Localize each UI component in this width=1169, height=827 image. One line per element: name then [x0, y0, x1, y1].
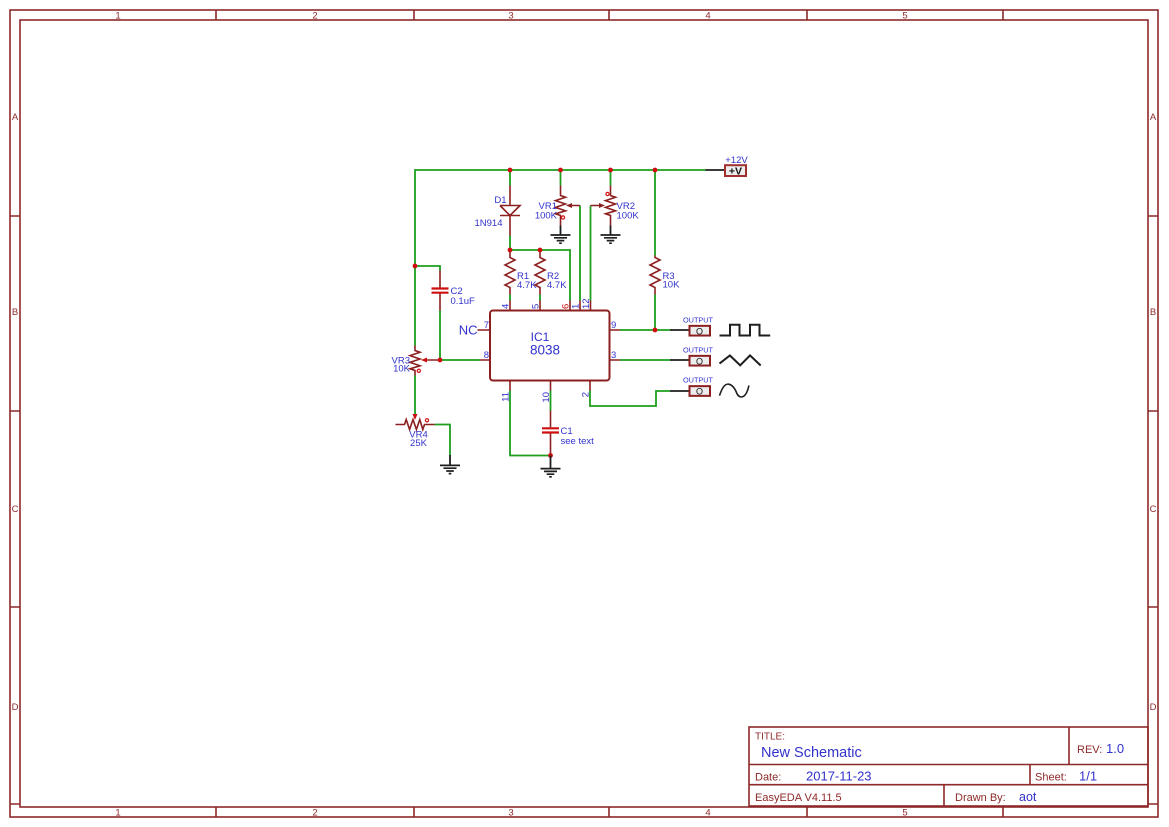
svg-text:1: 1	[571, 304, 582, 309]
svg-text:4: 4	[501, 304, 512, 309]
svg-text:11: 11	[501, 392, 512, 402]
svg-text:3: 3	[611, 350, 616, 361]
svg-text:8: 8	[484, 350, 489, 361]
svg-text:1.0: 1.0	[1106, 741, 1124, 756]
svg-text:Drawn By:: Drawn By:	[955, 792, 1006, 804]
svg-text:4: 4	[705, 808, 710, 819]
svg-text:O: O	[696, 356, 703, 366]
svg-text:1N914: 1N914	[475, 218, 503, 229]
svg-text:+V: +V	[729, 165, 742, 177]
svg-text:Sheet:: Sheet:	[1035, 772, 1067, 784]
svg-text:OUTPUT: OUTPUT	[683, 376, 714, 385]
svg-text:4: 4	[705, 11, 710, 22]
svg-text:5: 5	[902, 808, 907, 819]
svg-text:NC: NC	[459, 322, 478, 337]
svg-text:A: A	[1150, 112, 1157, 123]
svg-text:1: 1	[115, 808, 120, 819]
svg-text:3: 3	[508, 11, 513, 22]
svg-text:O: O	[696, 387, 703, 397]
svg-text:25K: 25K	[410, 438, 428, 449]
svg-text:2017-11-23: 2017-11-23	[806, 769, 872, 784]
svg-text:TITLE:: TITLE:	[755, 732, 785, 743]
svg-text:5: 5	[902, 11, 907, 22]
svg-text:1/1: 1/1	[1079, 769, 1097, 784]
svg-text:5: 5	[531, 304, 542, 309]
svg-text:7: 7	[484, 320, 489, 331]
svg-text:D: D	[1150, 702, 1157, 713]
svg-text:B: B	[1150, 307, 1156, 318]
svg-text:10K: 10K	[663, 280, 681, 291]
svg-text:4.7K: 4.7K	[517, 280, 537, 291]
svg-text:EasyEDA V4.11.5: EasyEDA V4.11.5	[755, 792, 842, 804]
svg-text:9: 9	[611, 320, 616, 331]
svg-text:OUTPUT: OUTPUT	[683, 345, 714, 354]
svg-text:2: 2	[312, 11, 317, 22]
svg-text:REV:: REV:	[1077, 744, 1102, 756]
svg-text:2: 2	[581, 392, 592, 397]
svg-text:aot: aot	[1019, 790, 1037, 804]
svg-text:D1: D1	[494, 195, 506, 206]
svg-text:A: A	[12, 112, 19, 123]
svg-text:+12V: +12V	[725, 155, 748, 166]
svg-text:O: O	[696, 326, 703, 336]
svg-text:12: 12	[581, 298, 592, 309]
svg-text:10: 10	[541, 392, 552, 403]
svg-text:C: C	[12, 504, 19, 515]
svg-text:C: C	[1150, 504, 1157, 515]
svg-text:see text: see text	[561, 436, 595, 447]
svg-text:B: B	[12, 307, 18, 318]
svg-text:100K: 100K	[535, 210, 558, 221]
svg-text:2: 2	[312, 808, 317, 819]
svg-text:100K: 100K	[617, 210, 640, 221]
svg-text:3: 3	[508, 808, 513, 819]
svg-text:8038: 8038	[530, 342, 560, 357]
svg-text:OUTPUT: OUTPUT	[683, 315, 714, 324]
svg-text:4.7K: 4.7K	[547, 280, 567, 291]
svg-text:10K: 10K	[393, 363, 411, 374]
svg-text:0.1uF: 0.1uF	[451, 296, 475, 307]
svg-text:1: 1	[115, 11, 120, 22]
svg-text:D: D	[12, 702, 19, 713]
svg-text:New Schematic: New Schematic	[761, 745, 862, 761]
svg-text:Date:: Date:	[755, 772, 781, 784]
